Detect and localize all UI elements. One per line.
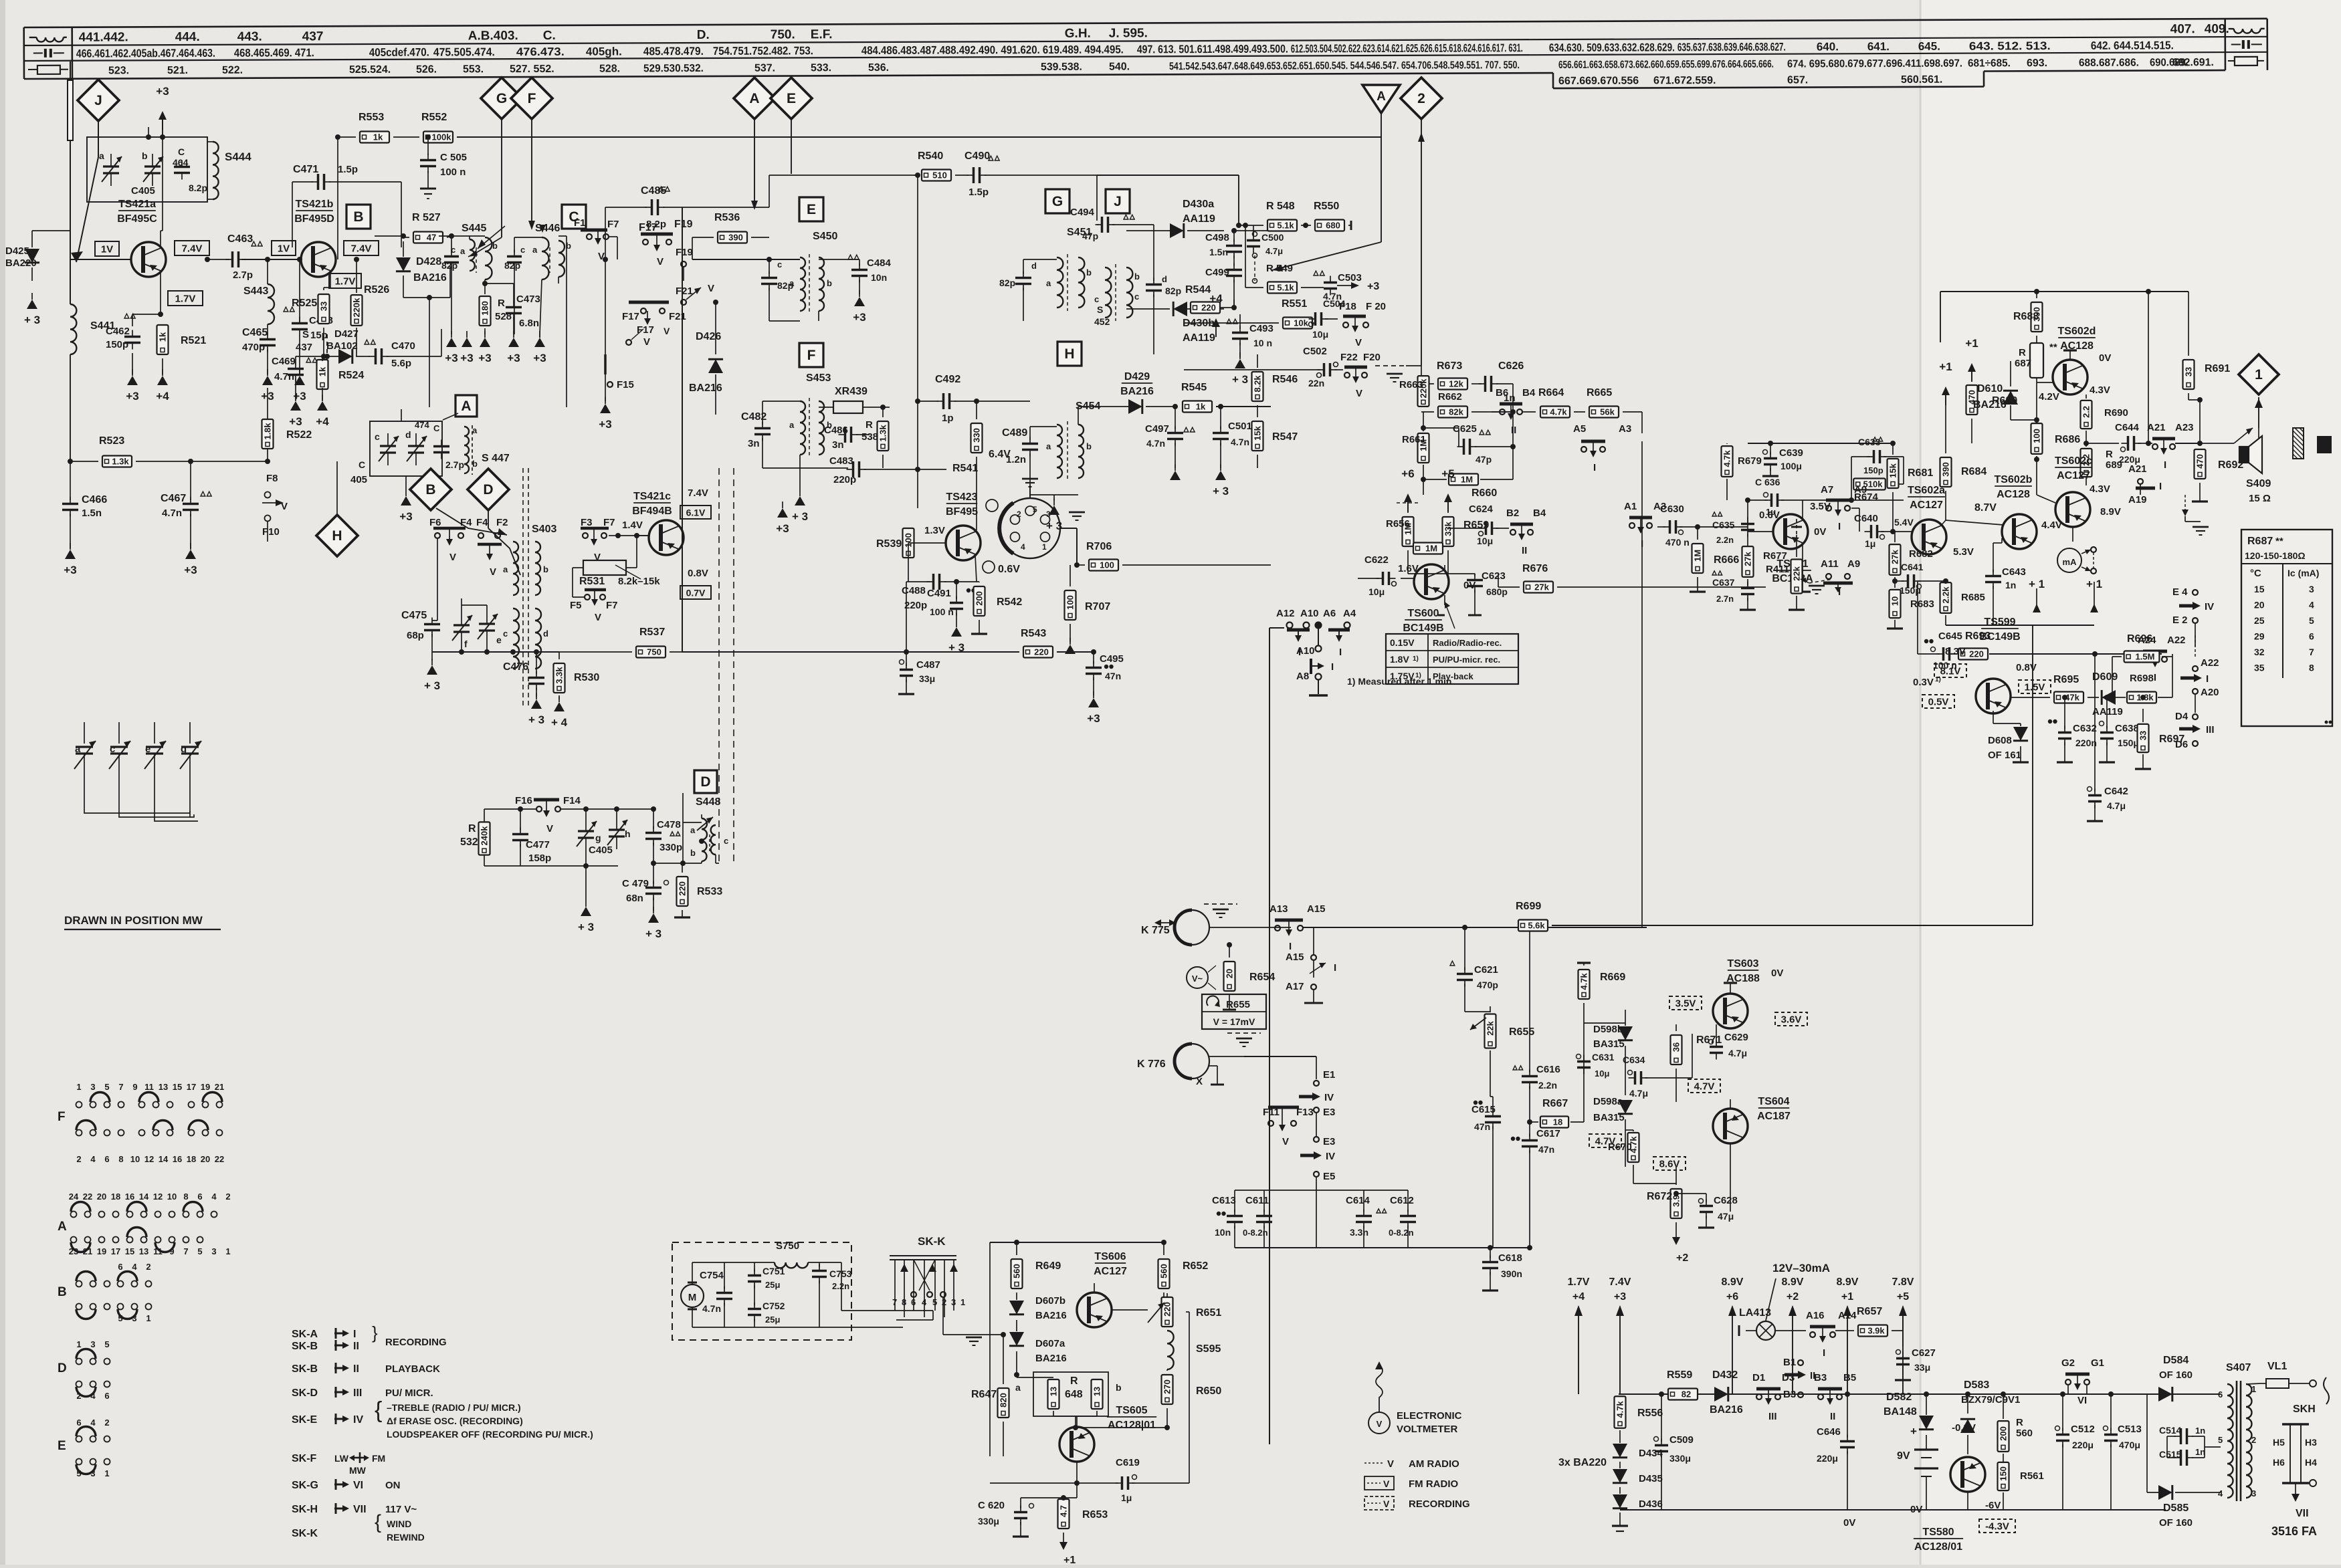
svg-text:F20: F20 xyxy=(1363,352,1381,363)
svg-text:R551: R551 xyxy=(1282,298,1307,310)
svg-text:12: 12 xyxy=(144,1154,154,1164)
svg-text:F: F xyxy=(58,1110,66,1124)
svg-text:F7: F7 xyxy=(603,517,615,528)
svg-text:220: 220 xyxy=(678,881,688,896)
svg-text:C614: C614 xyxy=(1346,1195,1370,1206)
svg-text:3: 3 xyxy=(2251,1488,2256,1498)
svg-text:+4: +4 xyxy=(1572,1291,1585,1303)
svg-text:R656: R656 xyxy=(1386,518,1410,530)
svg-text:1.2n: 1.2n xyxy=(1006,454,1026,465)
svg-text:C613: C613 xyxy=(1212,1195,1236,1206)
svg-text:750: 750 xyxy=(647,647,661,657)
svg-text:a: a xyxy=(690,825,696,835)
svg-text:2: 2 xyxy=(1417,91,1425,106)
svg-text:C493: C493 xyxy=(1249,323,1274,334)
svg-text:-4.3V: -4.3V xyxy=(1985,1521,2009,1533)
svg-text:4.7k: 4.7k xyxy=(1579,973,1589,990)
svg-text:e: e xyxy=(496,635,502,645)
svg-text:C631: C631 xyxy=(1592,1052,1615,1062)
svg-text:D585: D585 xyxy=(2163,1502,2189,1514)
svg-text:b: b xyxy=(1134,271,1140,282)
svg-text:C469: C469 xyxy=(272,356,296,367)
svg-text:I: I xyxy=(2159,481,2162,492)
svg-text:25μ: 25μ xyxy=(765,1315,780,1325)
svg-text:452: 452 xyxy=(1094,316,1110,327)
svg-text:a: a xyxy=(789,420,795,430)
svg-text:220μ: 220μ xyxy=(1817,1453,1838,1464)
svg-text:4.7n: 4.7n xyxy=(1231,437,1249,447)
svg-text:330μ: 330μ xyxy=(1669,1453,1691,1464)
svg-text:1.7V: 1.7V xyxy=(175,294,196,305)
svg-text:0.7V: 0.7V xyxy=(686,588,706,598)
svg-text:F16: F16 xyxy=(515,795,532,806)
svg-text:+3: +3 xyxy=(64,564,76,576)
svg-text:BA102: BA102 xyxy=(326,340,358,352)
svg-text:150: 150 xyxy=(1999,1466,2009,1481)
svg-text:5.4V: 5.4V xyxy=(1894,517,1914,528)
svg-text:15: 15 xyxy=(2254,584,2265,594)
svg-text:PU/PU-micr. rec.: PU/PU-micr. rec. xyxy=(1433,655,1500,665)
svg-text:+ 4: + 4 xyxy=(551,716,568,729)
svg-text:R697: R697 xyxy=(2159,734,2184,745)
svg-text:I: I xyxy=(2164,459,2166,471)
svg-text:4: 4 xyxy=(90,1391,96,1401)
svg-text:ELECTRONIC: ELECTRONIC xyxy=(1397,1410,1462,1422)
svg-text:D434: D434 xyxy=(1639,1448,1663,1459)
svg-text:539.538.: 539.538. xyxy=(1041,62,1082,73)
svg-text:R: R xyxy=(866,419,873,431)
svg-text:D1: D1 xyxy=(1752,1372,1765,1383)
svg-text:R661: R661 xyxy=(1402,434,1426,445)
svg-text:G.H.: G.H. xyxy=(1065,27,1091,41)
svg-text:18: 18 xyxy=(187,1154,196,1164)
svg-text:A15: A15 xyxy=(1307,903,1326,915)
svg-text:G: G xyxy=(496,91,507,106)
svg-text:F19: F19 xyxy=(674,219,693,230)
svg-text:A21: A21 xyxy=(2128,463,2147,475)
svg-text:OF 160: OF 160 xyxy=(2159,1369,2193,1381)
svg-text:3.9k: 3.9k xyxy=(1867,1326,1885,1336)
svg-text:C405: C405 xyxy=(589,845,613,856)
svg-text:XR439: XR439 xyxy=(835,386,868,397)
svg-text:A.B.403.: A.B.403. xyxy=(468,29,518,43)
svg-text:1.3k: 1.3k xyxy=(878,425,888,442)
svg-text:R530: R530 xyxy=(574,672,599,683)
svg-text:E3: E3 xyxy=(1323,1107,1335,1118)
svg-text:+ 3: + 3 xyxy=(578,921,594,933)
svg-text:540.: 540. xyxy=(1109,62,1130,73)
svg-text:1.8V: 1.8V xyxy=(1390,654,1409,665)
svg-text:I: I xyxy=(2154,672,2156,683)
svg-text:15: 15 xyxy=(125,1246,134,1256)
svg-text:A8: A8 xyxy=(1296,671,1309,682)
svg-text:R686: R686 xyxy=(2055,434,2080,445)
svg-text:200: 200 xyxy=(975,591,985,606)
svg-text:A4: A4 xyxy=(1343,608,1356,619)
svg-text:15: 15 xyxy=(173,1082,182,1092)
svg-text:484.486.483.487.488.492.490.: 484.486.483.487.488.492.490. 491.620. 61… xyxy=(861,43,1124,58)
svg-text:12k: 12k xyxy=(1449,379,1463,389)
svg-text:+1: +1 xyxy=(1965,337,1978,350)
svg-text:A22: A22 xyxy=(2167,635,2186,646)
svg-text:+2: +2 xyxy=(1676,1252,1688,1264)
svg-text:V: V xyxy=(546,823,553,834)
svg-text:C494: C494 xyxy=(1070,207,1095,218)
svg-text:693.: 693. xyxy=(2027,58,2047,69)
svg-text:R 548: R 548 xyxy=(1266,201,1295,212)
svg-text:+ 3: + 3 xyxy=(645,927,661,940)
svg-text:C477: C477 xyxy=(526,839,550,851)
svg-text:5: 5 xyxy=(2309,615,2314,626)
svg-text:b: b xyxy=(1116,1382,1122,1393)
svg-text:18: 18 xyxy=(111,1192,120,1202)
svg-text:+3: +3 xyxy=(853,311,866,324)
svg-text:1): 1) xyxy=(1935,676,1941,683)
svg-text:82p: 82p xyxy=(504,260,520,271)
svg-text:A5: A5 xyxy=(1573,423,1586,435)
svg-text:SK-K: SK-K xyxy=(918,1235,946,1248)
svg-text:A9: A9 xyxy=(1847,558,1860,570)
svg-text:R553: R553 xyxy=(359,112,384,123)
svg-text:0.8V: 0.8V xyxy=(688,568,708,579)
svg-text:I: I xyxy=(1339,647,1342,658)
svg-text:F4: F4 xyxy=(460,517,472,528)
svg-text:b: b xyxy=(472,459,478,469)
svg-text:0V: 0V xyxy=(2099,352,2111,364)
svg-text:13: 13 xyxy=(139,1246,148,1256)
svg-text:C478: C478 xyxy=(657,819,681,830)
svg-text:ON: ON xyxy=(385,1480,401,1491)
svg-text:C491: C491 xyxy=(927,588,951,599)
svg-text:390n: 390n xyxy=(1501,1268,1522,1279)
svg-text:a: a xyxy=(99,150,104,161)
svg-text:F17: F17 xyxy=(622,311,639,322)
svg-text:+3: +3 xyxy=(533,352,546,364)
svg-text:120-150-180Ω: 120-150-180Ω xyxy=(2245,550,2306,561)
svg-text:4: 4 xyxy=(132,1262,137,1272)
svg-text:R695: R695 xyxy=(2053,674,2079,685)
svg-text:C463: C463 xyxy=(227,233,253,245)
svg-text:c: c xyxy=(520,245,525,255)
svg-text:47μ: 47μ xyxy=(1718,1211,1734,1222)
svg-text:8: 8 xyxy=(2309,663,2314,673)
svg-text:13: 13 xyxy=(1049,1387,1059,1396)
svg-text:220: 220 xyxy=(1969,649,1984,659)
svg-text:D584: D584 xyxy=(2163,1355,2189,1366)
svg-text:5: 5 xyxy=(118,1313,122,1323)
svg-text:5.1k: 5.1k xyxy=(1277,221,1294,231)
svg-text:D432: D432 xyxy=(1712,1369,1738,1381)
svg-text:F10: F10 xyxy=(262,526,280,538)
svg-text:6: 6 xyxy=(911,1297,916,1307)
svg-text:2: 2 xyxy=(225,1192,230,1202)
svg-text:0V: 0V xyxy=(1814,526,1826,538)
svg-text:4.3V: 4.3V xyxy=(2090,384,2110,396)
svg-text:4.7n: 4.7n xyxy=(702,1303,721,1314)
svg-text:D426: D426 xyxy=(696,331,721,342)
svg-text:BA315: BA315 xyxy=(1593,1038,1625,1050)
svg-text:R696: R696 xyxy=(2127,633,2152,645)
svg-text:S444: S444 xyxy=(225,150,251,163)
svg-text:9V: 9V xyxy=(1897,1450,1910,1462)
svg-text:1.8k: 1.8k xyxy=(263,423,273,440)
svg-text:525.524.: 525.524. xyxy=(349,64,391,76)
svg-text:22: 22 xyxy=(83,1192,92,1202)
svg-text:°C: °C xyxy=(2250,568,2261,579)
svg-text:521.: 521. xyxy=(167,65,188,76)
svg-text:+3: +3 xyxy=(460,352,473,364)
svg-text:3.6V: 3.6V xyxy=(1781,1014,1802,1026)
svg-text:SKH: SKH xyxy=(2293,1404,2316,1415)
svg-text:R670: R670 xyxy=(1608,1141,1632,1153)
svg-text:3.3n: 3.3n xyxy=(1350,1227,1368,1238)
svg-text:475.505.474.: 475.505.474. xyxy=(433,45,495,58)
svg-text:+6: +6 xyxy=(1401,467,1414,480)
svg-text:8.9V: 8.9V xyxy=(1837,1276,1859,1288)
svg-text:8: 8 xyxy=(118,1154,123,1164)
svg-text:510: 510 xyxy=(932,171,947,181)
svg-text:R647: R647 xyxy=(971,1389,997,1400)
svg-text:C625: C625 xyxy=(1453,423,1477,435)
svg-text:S: S xyxy=(1097,304,1103,315)
svg-text:82p: 82p xyxy=(999,277,1015,288)
svg-text:1.3k: 1.3k xyxy=(112,457,129,467)
svg-text:R546: R546 xyxy=(1272,374,1298,385)
svg-text:d: d xyxy=(405,429,411,440)
svg-text:AC128/01: AC128/01 xyxy=(1914,1541,1962,1553)
svg-text:R: R xyxy=(1070,1375,1078,1387)
svg-text:4: 4 xyxy=(90,1418,96,1428)
svg-text:1.5V: 1.5V xyxy=(2025,682,2045,693)
svg-text:TS423: TS423 xyxy=(946,491,977,503)
svg-text:470μ: 470μ xyxy=(2119,1440,2140,1450)
svg-text:F17: F17 xyxy=(637,324,654,336)
svg-text:F21: F21 xyxy=(676,286,693,297)
svg-text:330: 330 xyxy=(972,428,982,443)
svg-text:1) Measured after 1 min.: 1) Measured after 1 min. xyxy=(1347,676,1454,687)
svg-text:C487: C487 xyxy=(916,659,940,671)
svg-text:c: c xyxy=(1134,292,1139,302)
svg-text:C499: C499 xyxy=(1205,267,1229,278)
svg-text:8.3V: 8.3V xyxy=(1945,646,1966,657)
svg-text:A19: A19 xyxy=(2128,494,2147,506)
svg-text:AC128: AC128 xyxy=(1997,489,2030,500)
svg-text:R559: R559 xyxy=(1667,1369,1692,1381)
svg-text:F4: F4 xyxy=(476,517,488,528)
svg-text:SK-E: SK-E xyxy=(292,1414,318,1426)
svg-text:V: V xyxy=(449,552,456,563)
svg-text:47n: 47n xyxy=(1538,1144,1554,1155)
svg-text:R552: R552 xyxy=(421,112,447,123)
svg-text:E5: E5 xyxy=(1323,1171,1335,1182)
svg-text:409.: 409. xyxy=(2205,22,2229,36)
svg-text:+1: +1 xyxy=(1063,1555,1076,1565)
svg-text:5: 5 xyxy=(197,1246,202,1256)
svg-text:D598b: D598b xyxy=(1593,1024,1623,1035)
svg-text:648: 648 xyxy=(1065,1389,1083,1400)
svg-text:E3: E3 xyxy=(1323,1136,1335,1147)
svg-text:A6: A6 xyxy=(1323,608,1336,619)
svg-text:C 636: C 636 xyxy=(1755,477,1780,487)
svg-text:645.: 645. xyxy=(1918,40,1940,53)
svg-text:A16: A16 xyxy=(1806,1310,1825,1321)
svg-text:V: V xyxy=(1383,1478,1390,1489)
svg-text:+6: +6 xyxy=(1726,1291,1738,1303)
svg-text:2: 2 xyxy=(2251,1435,2256,1445)
svg-text:BA216: BA216 xyxy=(689,382,722,394)
svg-text:15 Ω: 15 Ω xyxy=(2249,493,2271,504)
svg-text:A7: A7 xyxy=(1821,484,1833,495)
svg-text:D608: D608 xyxy=(1988,735,2012,746)
svg-text:4.7μ: 4.7μ xyxy=(1265,246,1283,256)
svg-text:SK-K: SK-K xyxy=(292,1528,318,1539)
svg-text:f: f xyxy=(464,639,468,649)
svg-text:A17: A17 xyxy=(1286,981,1304,992)
svg-text:4.7n: 4.7n xyxy=(1146,438,1165,449)
svg-text:BA216: BA216 xyxy=(1035,1310,1067,1321)
svg-text:D430a: D430a xyxy=(1183,199,1214,210)
svg-text:SK-G: SK-G xyxy=(292,1480,318,1491)
svg-text:C615: C615 xyxy=(1471,1104,1496,1115)
svg-text:0V: 0V xyxy=(1910,1504,1922,1515)
svg-text:+3: +3 xyxy=(399,510,412,523)
svg-text:+ 3: + 3 xyxy=(1213,485,1229,497)
svg-text:E 2: E 2 xyxy=(2172,614,2188,626)
svg-text:TS600: TS600 xyxy=(1407,608,1439,619)
svg-text:0-8.2n: 0-8.2n xyxy=(1389,1228,1414,1238)
svg-text:C644: C644 xyxy=(2115,422,2140,433)
svg-text:I: I xyxy=(1334,962,1336,974)
svg-text:4.7μ: 4.7μ xyxy=(1728,1048,1747,1058)
svg-text:C473: C473 xyxy=(516,294,540,305)
svg-text:C466: C466 xyxy=(82,494,107,506)
svg-text:240k: 240k xyxy=(480,826,490,846)
svg-text:692.691.: 692.691. xyxy=(2172,57,2214,68)
svg-text:C.: C. xyxy=(543,29,556,43)
svg-text:220n: 220n xyxy=(2075,738,2097,748)
svg-text:R662: R662 xyxy=(1438,391,1462,403)
svg-text:F7: F7 xyxy=(607,219,619,230)
svg-text:R550: R550 xyxy=(1314,201,1339,212)
svg-text:2.2n: 2.2n xyxy=(1538,1080,1557,1091)
svg-text:681÷685.: 681÷685. xyxy=(1968,58,2011,69)
svg-text:{: { xyxy=(375,1511,381,1533)
svg-text:mA: mA xyxy=(2063,557,2077,567)
svg-text:B: B xyxy=(58,1285,67,1299)
svg-text:+3: +3 xyxy=(289,415,302,428)
svg-text:3: 3 xyxy=(1046,510,1051,519)
svg-text:4.7n: 4.7n xyxy=(274,371,294,382)
svg-text:527. 552.: 527. 552. xyxy=(510,64,554,75)
svg-text:15p: 15p xyxy=(310,330,328,341)
svg-text:2.2n: 2.2n xyxy=(1716,535,1734,545)
svg-text:11: 11 xyxy=(153,1246,163,1256)
svg-text:R542: R542 xyxy=(997,596,1022,608)
svg-text:VII: VII xyxy=(2296,1508,2309,1519)
svg-text:C637: C637 xyxy=(1712,577,1735,588)
svg-text:23: 23 xyxy=(69,1246,78,1256)
svg-text:A1: A1 xyxy=(1624,501,1637,512)
svg-text:R526: R526 xyxy=(364,284,389,296)
svg-text:1n: 1n xyxy=(2005,580,2016,590)
svg-text:D598a: D598a xyxy=(1593,1096,1623,1107)
svg-text:20: 20 xyxy=(1225,969,1235,978)
svg-text:464: 464 xyxy=(173,157,189,168)
svg-text:I: I xyxy=(1838,521,1841,532)
svg-text:R547: R547 xyxy=(1272,431,1298,443)
svg-text:+3: +3 xyxy=(599,418,611,431)
svg-text:BF494B: BF494B xyxy=(632,506,672,517)
svg-text:10n: 10n xyxy=(871,272,887,283)
svg-text:1.5p: 1.5p xyxy=(338,164,358,175)
svg-text:7.4V: 7.4V xyxy=(1609,1276,1631,1288)
svg-text:3: 3 xyxy=(90,1082,95,1092)
svg-text:27k: 27k xyxy=(1743,551,1753,566)
svg-text:640.: 640. xyxy=(1817,40,1839,53)
svg-text:II: II xyxy=(1511,425,1516,436)
svg-text:V: V xyxy=(594,552,601,563)
svg-text:537.: 537. xyxy=(754,63,775,74)
svg-text:R: R xyxy=(2106,449,2113,460)
svg-text:220p: 220p xyxy=(833,474,856,485)
svg-text:TS580: TS580 xyxy=(1922,1527,1954,1538)
svg-text:A21: A21 xyxy=(2147,422,2166,433)
svg-text:R679: R679 xyxy=(1738,455,1762,467)
svg-text:A12: A12 xyxy=(1276,608,1295,619)
svg-text:7.4V: 7.4V xyxy=(688,487,708,499)
svg-text:405cdef.470.: 405cdef.470. xyxy=(369,46,429,59)
svg-text:E: E xyxy=(807,202,816,217)
svg-text:R652: R652 xyxy=(1183,1260,1208,1272)
svg-text:634.630. 509.633.632.628.629.: 634.630. 509.633.632.628.629. xyxy=(1549,41,1675,54)
svg-text:J. 595.: J. 595. xyxy=(1109,26,1148,40)
svg-text:III: III xyxy=(2206,724,2215,736)
svg-text:+1: +1 xyxy=(1939,360,1952,373)
svg-text:V: V xyxy=(490,566,496,578)
svg-text:+4: +4 xyxy=(1209,292,1223,305)
svg-text:R672: R672 xyxy=(1647,1191,1672,1202)
svg-text:407.: 407. xyxy=(2170,22,2195,36)
svg-text:B1: B1 xyxy=(1783,1357,1796,1368)
svg-text:4.7μ: 4.7μ xyxy=(1629,1088,1648,1099)
svg-text:BC149B: BC149B xyxy=(1979,631,2020,643)
svg-text:R536: R536 xyxy=(714,212,740,223)
svg-text:553.: 553. xyxy=(463,64,484,75)
svg-text:3.3k: 3.3k xyxy=(554,667,565,684)
svg-text:22k: 22k xyxy=(1486,1020,1496,1035)
svg-text:687: 687 xyxy=(2015,358,2031,369)
svg-text:D428: D428 xyxy=(416,256,441,267)
svg-text:4.7V: 4.7V xyxy=(1694,1081,1715,1093)
svg-text:33: 33 xyxy=(2138,731,2148,740)
svg-text:C497: C497 xyxy=(1145,423,1169,435)
svg-text:F14: F14 xyxy=(563,795,581,806)
svg-text:68n: 68n xyxy=(626,893,643,904)
svg-text:12: 12 xyxy=(153,1192,163,1202)
svg-text:AA119: AA119 xyxy=(1183,332,1215,344)
svg-text:F8: F8 xyxy=(266,473,278,484)
svg-text:BA216: BA216 xyxy=(1120,386,1154,397)
svg-text:TS604: TS604 xyxy=(1758,1096,1789,1107)
svg-text:C514: C514 xyxy=(2159,1425,2182,1436)
svg-text:X: X xyxy=(1196,1076,1203,1087)
svg-text:1p: 1p xyxy=(942,413,954,424)
svg-text:a: a xyxy=(1015,1382,1021,1393)
svg-text:R561: R561 xyxy=(2020,1470,2044,1482)
svg-text:4.7μ: 4.7μ xyxy=(2107,800,2126,811)
svg-text:3.5V: 3.5V xyxy=(1675,998,1696,1010)
svg-text:21: 21 xyxy=(83,1246,92,1256)
